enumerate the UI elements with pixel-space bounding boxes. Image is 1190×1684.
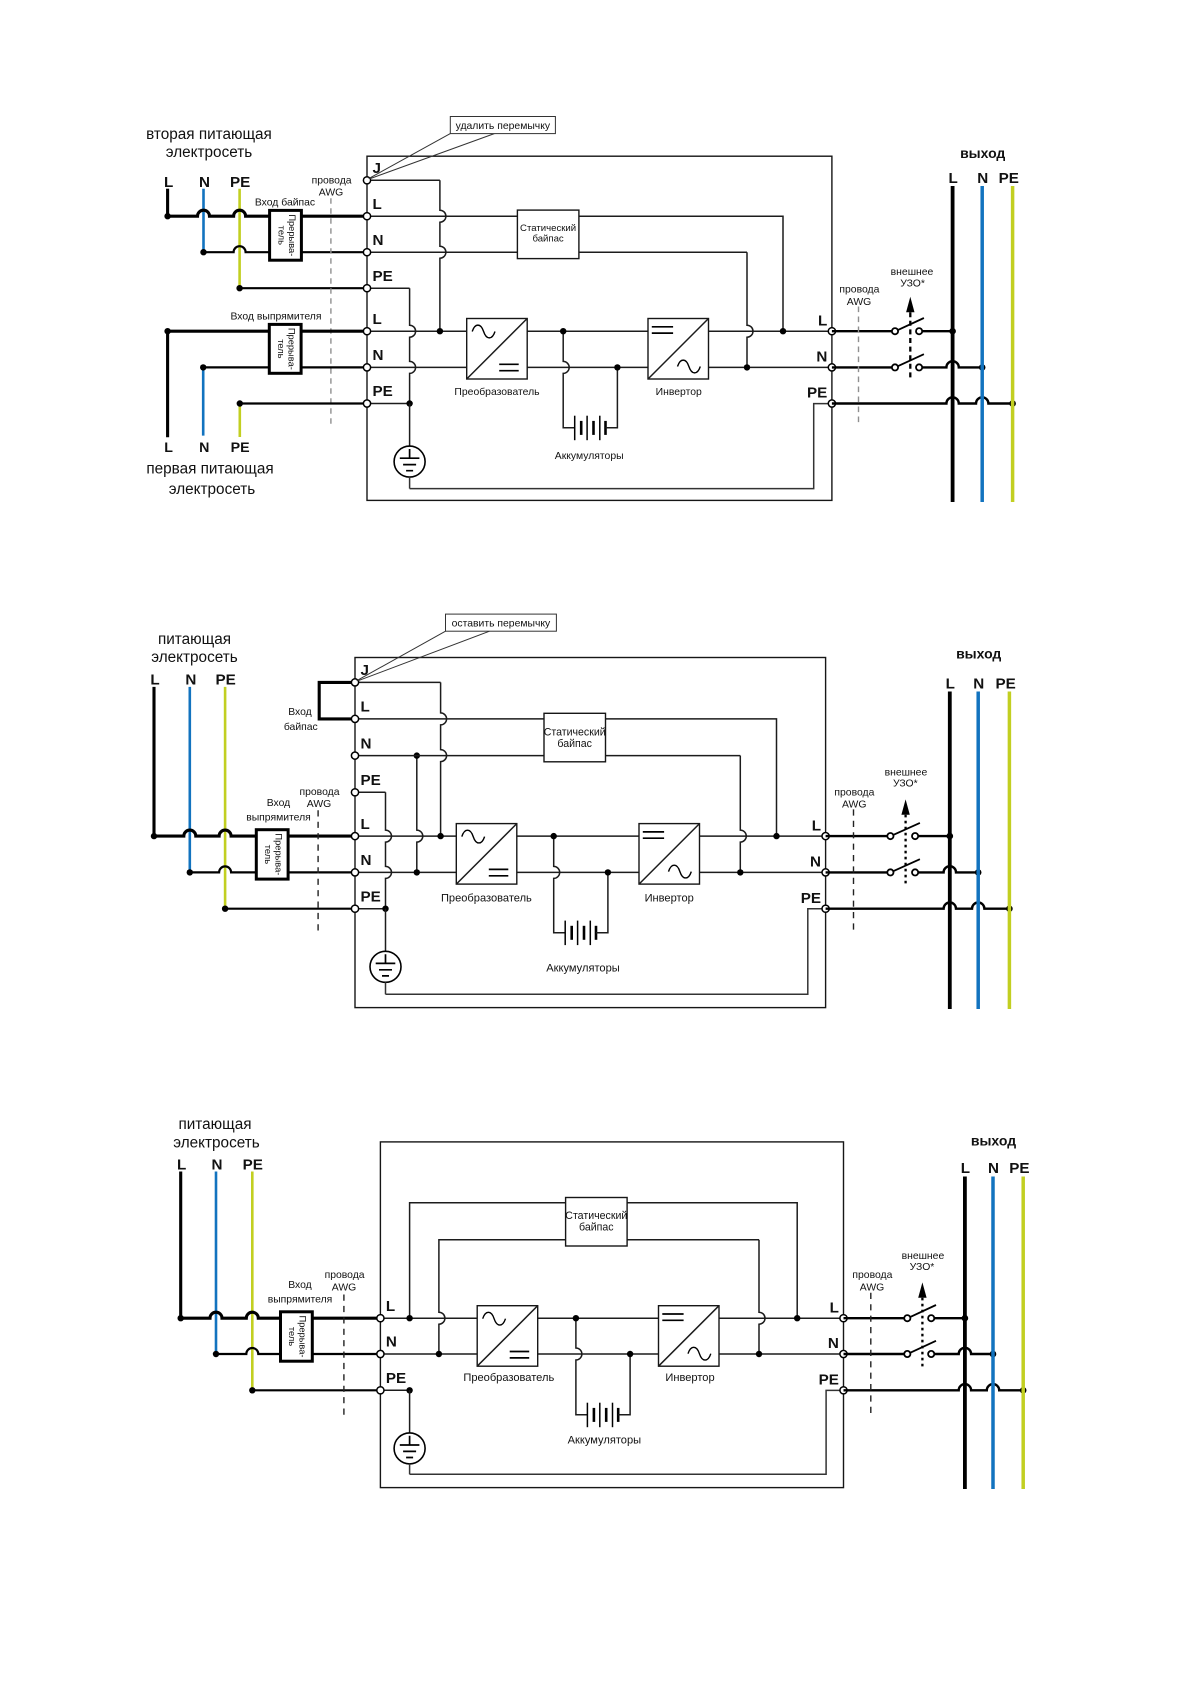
svg-text:питающая: питающая: [158, 631, 231, 648]
wire d2 rectifier input N: [190, 866, 256, 872]
circuit breaker d1 bypass breaker: [270, 210, 302, 260]
wire d1 static bypass L wire: [367, 216, 783, 331]
terminal d3 L input terminal: [377, 1315, 384, 1322]
d1 output line L: [951, 186, 955, 502]
node d2 mains PE tap: [222, 906, 228, 912]
terminal d1 J input terminal y=180.3: [363, 177, 370, 184]
wire d2 static bypass N wire: [355, 755, 740, 757]
d1 output line PE: [1011, 186, 1015, 502]
wire d3 rail N internal: [380, 1353, 843, 1355]
wire d3 output L (after switch): [934, 1317, 965, 1319]
svg-text:электросеть: электросеть: [169, 481, 255, 498]
static bypass d3: [565, 1198, 627, 1247]
svg-text:PE: PE: [243, 1156, 263, 1173]
node d3 mains L corner: [178, 1315, 184, 1321]
wire d3 bypass N feed: [439, 1240, 759, 1354]
wire d3 bypass L feed: [410, 1203, 798, 1318]
svg-text:PE: PE: [995, 676, 1015, 693]
svg-text:N: N: [828, 1335, 839, 1352]
svg-text:внешнее: внешнее: [891, 267, 934, 278]
svg-text:L: L: [373, 311, 382, 328]
svg-text:AWG: AWG: [860, 1283, 884, 1294]
node d1 mains2 PE tap: [236, 285, 242, 291]
d2 output line PE: [1008, 692, 1012, 1010]
node d3 mains N tap: [213, 1351, 219, 1357]
static bypass d1: [517, 210, 579, 259]
node d1 L out join: [949, 328, 956, 335]
d1 mains1 line L: [166, 331, 169, 437]
node d2 bypass N join: [737, 869, 743, 875]
terminal d3 PE input terminal: [377, 1387, 384, 1394]
svg-text:PE: PE: [230, 174, 250, 191]
wire d2 static bypass L wire: [355, 719, 777, 836]
svg-text:AWG: AWG: [332, 1283, 356, 1294]
svg-text:Инвертор: Инвертор: [665, 1372, 714, 1384]
wire d1 output L: [832, 330, 892, 332]
wire d1 output PE: [832, 397, 1013, 403]
switch d3 RCD pole N: [904, 1341, 936, 1357]
node d3 bypass L join: [794, 1315, 800, 1321]
d1 mains2 line PE: [238, 189, 241, 289]
static bypass d2: [544, 713, 606, 762]
svg-text:PE: PE: [386, 1370, 406, 1387]
node d2 L out join: [947, 833, 954, 840]
svg-text:L: L: [361, 816, 370, 833]
wire d2 output L (after switch): [918, 835, 950, 837]
node d1 mains1 L corner: [164, 328, 170, 334]
svg-text:L: L: [946, 676, 955, 693]
node d3 PE out join: [1020, 1387, 1027, 1394]
battery GB1 (d3): [576, 1318, 630, 1427]
svg-text:PE: PE: [215, 672, 235, 689]
wire d3 rectifier input PE: [252, 1389, 380, 1391]
svg-text:AWG: AWG: [842, 800, 866, 811]
wire d1 rail L internal: [367, 330, 832, 332]
wire d3 PE return: [410, 1390, 840, 1474]
svg-text:электросеть: электросеть: [173, 1135, 259, 1152]
battery GB1 (d1): [563, 331, 617, 440]
node GB1 (d2) L tap: [551, 833, 557, 839]
wire d1 rectifier input L: [168, 330, 270, 333]
svg-text:PE: PE: [1009, 1160, 1029, 1177]
terminal d1 PE input terminal y=403.5: [363, 400, 370, 407]
switch d1 RCD pole L: [892, 318, 924, 334]
svg-text:Статический: Статический: [565, 1210, 627, 1222]
svg-text:AWG: AWG: [847, 297, 871, 308]
terminal d2 PE input terminal y=792.3: [351, 789, 358, 796]
svg-text:провода: провода: [839, 285, 879, 296]
svg-text:L: L: [818, 312, 827, 329]
terminal d1 PE input terminal y=288.2: [363, 285, 370, 292]
svg-text:L: L: [164, 174, 173, 191]
node GB1 (d2) N tap: [605, 869, 611, 875]
wire d1 bypass input N (after breaker): [301, 251, 367, 253]
svg-text:Преобразователь: Преобразователь: [441, 892, 532, 904]
ground d2 earth: [370, 909, 401, 995]
d1 mains2 line N: [202, 189, 205, 253]
node d1 PE junction: [406, 400, 412, 406]
switch d3 RCD pole L: [904, 1305, 936, 1321]
d2 mains line N: [189, 687, 192, 873]
node d2 N out join: [975, 869, 982, 876]
svg-text:провода: провода: [312, 176, 352, 187]
terminal d2 L input terminal y=836.1: [351, 833, 358, 840]
wire d3 output L: [844, 1317, 905, 1319]
wire d1 output N (after switch): [922, 361, 982, 367]
node d2 mains L corner: [151, 833, 157, 839]
circuit breaker d1 rectifier breaker: [269, 324, 301, 373]
svg-text:L: L: [948, 170, 957, 187]
svg-text:удалить перемычку: удалить перемычку: [456, 121, 551, 132]
svg-text:провода: провода: [834, 787, 874, 798]
battery GB1 (d2): [554, 836, 608, 945]
svg-text:N: N: [373, 347, 384, 364]
wire d1 rectifier input L (after breaker): [301, 330, 367, 333]
svg-text:L: L: [386, 1298, 395, 1315]
node d1 mains1 N tap: [200, 364, 206, 370]
node d1 bypass N join: [744, 364, 750, 370]
terminal d2 N input terminal y=872.4: [351, 869, 358, 876]
svg-text:байпас: байпас: [557, 738, 592, 750]
wire d2 output L: [826, 835, 888, 837]
UPS enclosure box (diagram 3): [380, 1142, 843, 1488]
svg-text:Аккумуляторы: Аккумуляторы: [546, 963, 619, 975]
wire d2 rail L internal: [355, 835, 826, 837]
wire d3 rectifier input L (after breaker): [312, 1317, 380, 1320]
callout удалить перемычку (d1): [369, 117, 556, 179]
svg-text:Преобразователь: Преобразователь: [463, 1372, 554, 1384]
svg-text:L: L: [961, 1160, 970, 1177]
wire d3 rail PE internal: [380, 1389, 409, 1391]
svg-text:байпас: байпас: [579, 1221, 614, 1233]
svg-text:N: N: [386, 1334, 397, 1351]
wire d1 rail N internal: [367, 366, 832, 368]
UPS enclosure box (diagram 1): [367, 156, 832, 500]
terminal d1 N input terminal y=252.2: [363, 249, 370, 256]
svg-text:N: N: [361, 735, 372, 752]
d2 output line L: [948, 692, 952, 1010]
inverter U2 (d1): [648, 319, 709, 380]
svg-text:выход: выход: [956, 645, 1001, 661]
svg-text:УЗО*: УЗО*: [900, 279, 925, 290]
wire d1 rail PE internal: [367, 403, 410, 405]
wire d3 rectifier input L: [181, 1312, 281, 1318]
svg-text:L: L: [373, 196, 382, 213]
node d1 mains2 L corner: [164, 213, 170, 219]
svg-text:электросеть: электросеть: [151, 649, 237, 666]
terminal d2 PE input terminal y=908.7: [351, 905, 358, 912]
AWG boundary dashed line (d3 output): [870, 1293, 872, 1415]
wire d1 jumper J to rectifier L: [367, 179, 440, 181]
wire d1 output L (after switch): [922, 330, 952, 332]
jumper link J to L (keep jumper): [319, 682, 355, 719]
svg-text:N: N: [988, 1160, 999, 1177]
svg-text:питающая: питающая: [178, 1116, 251, 1133]
terminal d1 PE output terminal: [828, 400, 835, 407]
terminal d1 N output terminal: [828, 364, 835, 371]
node d2 bypass L join: [773, 833, 779, 839]
wire d1 bypass input N: [204, 246, 270, 252]
svg-text:PE: PE: [807, 385, 827, 402]
circuit breaker d2 rectifier breaker: [256, 830, 288, 879]
wire d1 rectifier input N: [203, 366, 269, 368]
svg-text:выход: выход: [971, 1132, 1016, 1148]
d3 output line PE: [1021, 1177, 1025, 1490]
svg-text:N: N: [199, 440, 209, 456]
svg-text:Аккумуляторы: Аккумуляторы: [555, 451, 624, 462]
svg-text:Статический: Статический: [520, 223, 576, 234]
wire d2 rail PE internal: [355, 908, 386, 910]
terminal d1 L input terminal y=216.2: [363, 213, 370, 220]
svg-text:PE: PE: [373, 383, 393, 400]
ground d1 earth: [394, 404, 425, 489]
wire d1 output N: [832, 366, 892, 368]
svg-text:Вход: Вход: [288, 1280, 312, 1291]
node d3 N out join: [990, 1351, 997, 1358]
node d2 mains N tap: [187, 869, 193, 875]
svg-text:PE: PE: [231, 440, 250, 456]
switch d2 RCD pole L: [887, 823, 920, 839]
node d2 PE junction: [382, 906, 388, 912]
AWG boundary dashed line (d2 input): [317, 810, 319, 931]
wire d1 rectifier input PE: [240, 402, 367, 404]
node d1 N out join: [979, 364, 986, 371]
terminal d2 L input terminal y=718.9: [351, 715, 358, 722]
svg-text:L: L: [812, 817, 821, 834]
svg-text:N: N: [816, 349, 827, 366]
converter U1 (d3): [477, 1306, 538, 1367]
node GB1 (d1) N tap: [614, 364, 620, 370]
RCD arrow d2 RCD: [901, 799, 909, 884]
d3 mains line L: [179, 1172, 182, 1319]
d1 output line N: [980, 186, 984, 502]
d1 mains2 line L: [166, 189, 169, 217]
svg-text:внешнее: внешнее: [902, 1251, 945, 1262]
UPS enclosure box (diagram 2): [355, 658, 826, 1008]
svg-text:PE: PE: [819, 1372, 839, 1389]
svg-text:электросеть: электросеть: [166, 144, 252, 161]
d2 output line N: [976, 692, 980, 1010]
d3 mains line N: [215, 1172, 218, 1355]
circuit breaker d3 rectifier breaker: [281, 1312, 313, 1361]
node GB1 (d3) N tap: [627, 1351, 633, 1357]
wire d3 output N (after switch): [934, 1348, 993, 1354]
AWG boundary dashed line (d2 output): [853, 809, 855, 933]
svg-text:Инвертор: Инвертор: [645, 892, 694, 904]
wire d2 output N: [826, 871, 888, 873]
svg-text:N: N: [212, 1156, 223, 1173]
wire d1 rectifier input N (after breaker): [301, 366, 367, 368]
wire d1 bypass input L (after breaker): [301, 215, 367, 218]
converter U1 (d1): [467, 319, 528, 380]
svg-text:PE: PE: [801, 890, 821, 907]
RCD arrow d1 RCD: [906, 297, 914, 381]
wire d1 static bypass N wire: [367, 251, 747, 253]
svg-text:УЗО*: УЗО*: [893, 779, 918, 790]
svg-text:первая питающая: первая питающая: [146, 461, 273, 478]
svg-text:оставить перемычку: оставить перемычку: [452, 619, 551, 630]
d1 mains1 line N: [202, 367, 205, 435]
wire d3 output PE: [844, 1384, 1024, 1390]
svg-text:Статический: Статический: [544, 727, 606, 739]
wire d2 rectifier input L: [154, 830, 256, 836]
d3 mains line PE: [251, 1172, 254, 1391]
wire d3 output N: [844, 1353, 905, 1355]
node d3 bypass N tap: [436, 1351, 442, 1357]
wire d2 jumper J to rectifier L: [355, 681, 441, 683]
node d3 bypass L tap: [406, 1315, 412, 1321]
AWG boundary dashed line (d1 input): [330, 198, 332, 424]
wire d3 rail L internal: [380, 1317, 843, 1319]
svg-text:провода: провода: [300, 787, 340, 798]
wire d1 bypass input PE: [240, 287, 367, 289]
terminal d3 PE output terminal: [840, 1387, 847, 1394]
terminal d2 L output terminal: [822, 833, 829, 840]
svg-text:внешнее: внешнее: [885, 767, 928, 778]
node d3 mains PE tap: [249, 1387, 255, 1393]
svg-text:выпрямителя: выпрямителя: [268, 1295, 333, 1306]
node d3 L out join: [962, 1315, 969, 1322]
node d3 bypass N join: [756, 1351, 762, 1357]
wire d1 bypass PE drop: [367, 287, 410, 289]
terminal d1 L output terminal: [828, 328, 835, 335]
svg-text:N: N: [977, 170, 988, 187]
svg-text:байпас: байпас: [284, 721, 318, 733]
svg-text:провода: провода: [325, 1270, 365, 1281]
wire d2 PE return: [386, 909, 823, 995]
wire d1 bypass input L: [168, 210, 270, 216]
terminal d2 J input terminal y=682.4: [351, 679, 358, 686]
node GB1 (d3) L tap: [573, 1315, 579, 1321]
terminal d3 N input terminal: [377, 1350, 384, 1357]
terminal d1 N input terminal y=367.4: [363, 364, 370, 371]
wire d2 rectifier input L (after breaker): [288, 835, 355, 838]
terminal d2 PE output terminal: [822, 905, 829, 912]
terminal d2 N output terminal: [822, 869, 829, 876]
inverter U2 (d3): [659, 1306, 720, 1367]
wire d2 rectifier input N (after breaker): [288, 871, 355, 873]
svg-text:вторая питающая: вторая питающая: [146, 126, 272, 143]
svg-text:Аккумуляторы: Аккумуляторы: [568, 1434, 641, 1446]
terminal d2 N input terminal y=755.6: [351, 752, 358, 759]
wire d1 PE return: [410, 404, 829, 489]
svg-text:выход: выход: [960, 145, 1005, 161]
RCD arrow d3 RCD: [918, 1282, 926, 1367]
wire d2 output PE: [826, 903, 1010, 909]
d3 output line L: [963, 1177, 967, 1490]
wire d3 rectifier input N (after breaker): [312, 1353, 380, 1355]
d2 mains line PE: [224, 687, 227, 909]
svg-text:провода: провода: [852, 1270, 892, 1281]
svg-text:Вход выпрямителя: Вход выпрямителя: [230, 312, 321, 323]
terminal d3 L output terminal: [840, 1315, 847, 1322]
node d1 jumper to L rail: [437, 328, 443, 334]
svg-text:AWG: AWG: [307, 799, 331, 810]
switch d2 RCD pole N: [887, 859, 920, 875]
wire d2 rectifier input PE: [225, 908, 355, 910]
svg-text:Вход: Вход: [288, 707, 312, 718]
node d2 PE out join: [1006, 905, 1013, 912]
svg-text:Вход байпас: Вход байпас: [255, 197, 315, 209]
node d2 N byp top: [414, 752, 420, 758]
svg-text:L: L: [150, 672, 159, 689]
converter U1 (d2): [456, 824, 517, 885]
svg-text:Преобразователь: Преобразователь: [454, 386, 539, 398]
switch d1 RCD pole N: [892, 354, 924, 370]
svg-text:байпас: байпас: [532, 234, 563, 245]
svg-text:Инвертор: Инвертор: [656, 387, 702, 398]
svg-text:AWG: AWG: [319, 188, 343, 199]
node d1 bypass L join: [780, 328, 786, 334]
svg-text:N: N: [199, 174, 210, 191]
svg-text:N: N: [373, 232, 384, 249]
wire d2 bypass N to rail N: [417, 756, 423, 873]
svg-text:L: L: [361, 699, 370, 716]
node GB1 (d1) L tap: [560, 328, 566, 334]
wire d2 bypass PE drop: [355, 791, 386, 793]
svg-text:PE: PE: [999, 170, 1019, 187]
svg-text:выпрямителя: выпрямителя: [246, 812, 311, 823]
d2 mains line L: [152, 687, 155, 836]
wire d2 output N (after switch): [918, 866, 978, 872]
svg-text:УЗО*: УЗО*: [910, 1262, 935, 1273]
d1 mains1 line PE: [239, 404, 242, 438]
inverter U2 (d2): [639, 824, 700, 885]
svg-text:N: N: [973, 676, 984, 693]
wire d3 rectifier input N: [216, 1348, 281, 1354]
AWG boundary dashed line (d1 output): [858, 307, 860, 426]
svg-text:PE: PE: [361, 772, 381, 789]
svg-text:N: N: [810, 854, 821, 871]
terminal d1 L input terminal y=331.2: [363, 328, 370, 335]
svg-text:PE: PE: [361, 888, 381, 905]
node d2 jumper to L rail: [437, 833, 443, 839]
node d1 PE out join: [1009, 400, 1016, 407]
terminal d3 N output terminal: [840, 1350, 847, 1357]
d3 output line N: [991, 1177, 995, 1490]
node d1 mains2 N tap: [200, 249, 206, 255]
AWG boundary dashed line (d3 input): [343, 1295, 345, 1416]
svg-text:N: N: [361, 852, 372, 869]
svg-text:Вход: Вход: [267, 798, 291, 809]
svg-text:L: L: [177, 1156, 186, 1173]
node d1 mains1 PE tap: [237, 400, 243, 406]
node d3 PE junction: [406, 1387, 412, 1393]
node d2 N byp join: [414, 869, 420, 875]
wire d2 rail N internal: [355, 871, 826, 873]
ground d3 earth: [394, 1390, 425, 1474]
svg-text:PE: PE: [373, 268, 393, 285]
svg-text:L: L: [164, 440, 173, 456]
callout оставить перемычку (d2): [357, 614, 557, 681]
svg-text:N: N: [185, 672, 196, 689]
svg-text:L: L: [830, 1299, 839, 1316]
